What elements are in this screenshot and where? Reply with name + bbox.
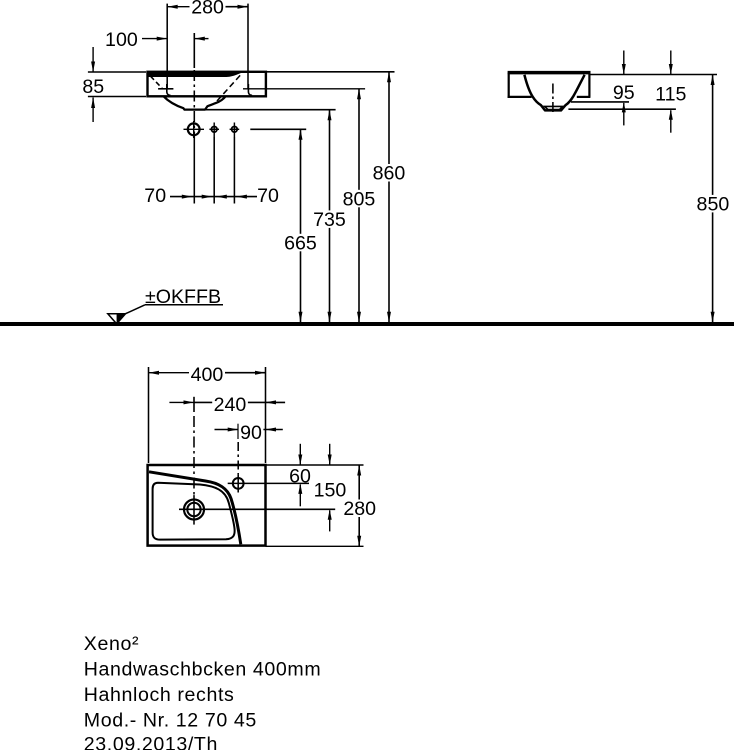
svg-text:280: 280 (191, 0, 224, 19)
svg-text:Hahnloch rechts: Hahnloch rechts (84, 684, 235, 706)
svg-text:100: 100 (105, 29, 138, 51)
svg-text:23.09.2013/Th: 23.09.2013/Th (84, 734, 218, 750)
svg-text:805: 805 (343, 188, 376, 210)
svg-text:735: 735 (313, 209, 346, 231)
svg-text:70: 70 (257, 185, 279, 207)
svg-text:60: 60 (289, 465, 311, 487)
svg-text:70: 70 (144, 185, 166, 207)
svg-text:Xeno²: Xeno² (84, 633, 139, 655)
svg-text:90: 90 (240, 422, 262, 444)
svg-text:400: 400 (191, 364, 224, 386)
svg-text:240: 240 (214, 394, 247, 416)
svg-text:85: 85 (82, 76, 104, 98)
svg-text:95: 95 (613, 82, 635, 104)
svg-text:860: 860 (373, 163, 406, 185)
svg-text:665: 665 (284, 232, 317, 254)
svg-text:150: 150 (314, 480, 347, 502)
svg-text:850: 850 (697, 193, 730, 215)
svg-text:280: 280 (343, 498, 376, 520)
svg-text:115: 115 (655, 83, 686, 105)
svg-text:Handwaschbcken 400mm: Handwaschbcken 400mm (84, 658, 321, 680)
svg-text:Mod.- Nr. 12 70 45: Mod.- Nr. 12 70 45 (84, 710, 257, 732)
